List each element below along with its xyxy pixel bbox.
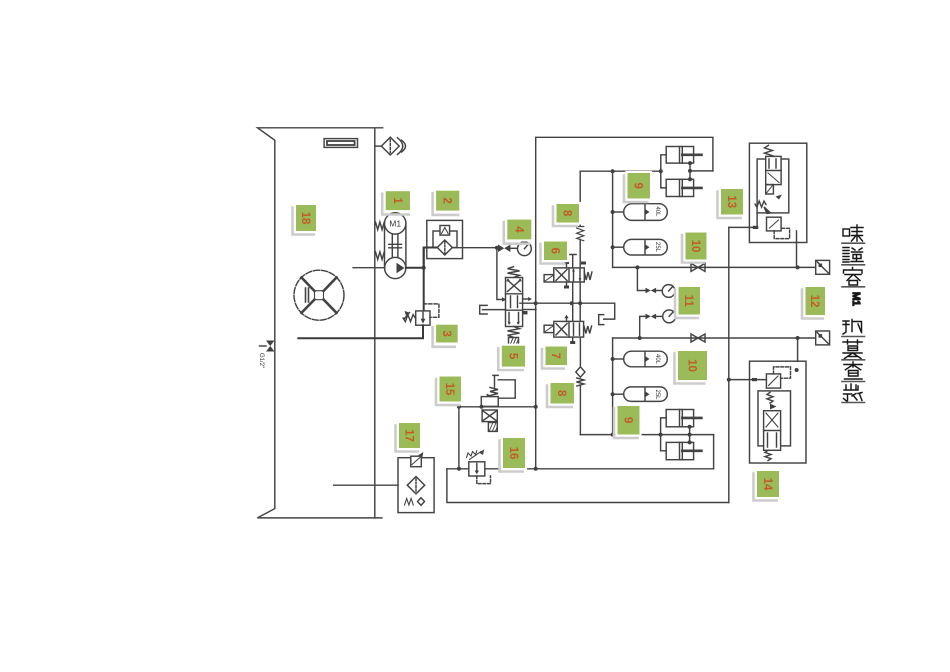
label 16 [500, 436, 528, 472]
svg-text:9: 9 [622, 417, 634, 423]
wire filter to gauge line [452, 247, 497, 249]
char 1 [843, 225, 863, 241]
tank 18 outline [257, 128, 382, 518]
wire accumulator top line [580, 170, 661, 172]
svg-text:40L: 40L [654, 207, 660, 218]
pilot valve block (item 14) [750, 361, 807, 463]
quick coupling 12 bottom [816, 331, 830, 345]
return filter (item 17) [334, 484, 398, 486]
label 13 [718, 187, 746, 218]
svg-text:1: 1 [391, 197, 403, 204]
motor M1 and pump unit (item 1) [385, 213, 406, 279]
label 1 [382, 189, 412, 215]
wire T line to frame [523, 309, 536, 311]
label 12 [802, 285, 827, 319]
relief pilot dashed [424, 304, 439, 317]
label 10 bottom [675, 349, 710, 384]
label 11 [675, 285, 702, 318]
label 3 [433, 323, 460, 347]
check valve + filter block (item 2) [427, 220, 463, 258]
wire valve15 line to frame [459, 406, 536, 408]
accumulator 40L bottom [613, 351, 668, 367]
accumulator line 2 [613, 337, 816, 339]
level gauge circle [294, 270, 344, 320]
CJK annotation column [842, 225, 865, 403]
svg-text:M1: M1 [389, 219, 401, 229]
wire feed to block14 left [729, 379, 767, 381]
wire block13 bottom to line1 [796, 243, 798, 268]
svg-text:M1: M1 [850, 292, 861, 306]
svg-text:10: 10 [689, 240, 701, 253]
svg-text:16: 16 [507, 447, 519, 460]
pressure gauge assembly (item 11 top) [637, 267, 645, 290]
wire valve6 to line P to valve7 [572, 282, 574, 321]
label 14 [754, 469, 782, 501]
ball valve on line 1 [691, 263, 705, 271]
relief spring [403, 315, 416, 322]
check valve with spring (item 8 top) [579, 239, 581, 268]
ball valve on line 2 [691, 334, 705, 342]
motor mount springs [376, 222, 385, 259]
svg-text:8: 8 [561, 210, 573, 217]
label 18 [293, 203, 319, 235]
main valve feed wire [497, 248, 503, 300]
relief drain to tank [298, 325, 423, 338]
air breather diamond on tank top right [375, 137, 406, 155]
svg-text:10: 10 [686, 359, 698, 372]
accumulator bus bottom [612, 338, 614, 435]
label 17 [396, 421, 423, 452]
wire valve7 to check valve 8 bottom [579, 337, 581, 367]
svg-text:11: 11 [682, 295, 694, 308]
svg-text:2: 2 [441, 197, 453, 203]
svg-text:14: 14 [761, 478, 773, 491]
svg-text:25L: 25L [654, 390, 660, 401]
svg-text:6: 6 [549, 247, 561, 253]
svg-text:G1/2": G1/2" [258, 353, 264, 368]
svg-text:9: 9 [632, 182, 644, 188]
label 4 [504, 218, 534, 244]
svg-text:5: 5 [506, 353, 518, 360]
label 9 bottom [614, 404, 642, 438]
svg-text:4: 4 [512, 226, 524, 233]
svg-text:12: 12 [808, 295, 820, 308]
label 15 [436, 374, 463, 405]
pump flow arrow [397, 263, 405, 273]
valve 5 left bracket port [480, 305, 487, 314]
blocked port bracket [599, 315, 604, 325]
label 8 bottom [547, 381, 576, 407]
return line bottom [447, 469, 729, 503]
svg-text:18: 18 [299, 212, 311, 225]
char 2 [843, 248, 863, 263]
valve 6 spring [584, 272, 592, 280]
quick coupling 12 top [816, 260, 830, 274]
valve 5 top spring [508, 267, 520, 278]
cartridge valve (item 15) [493, 375, 498, 387]
label 8 top [553, 202, 581, 226]
svg-text:17: 17 [403, 429, 415, 442]
label 6 [541, 239, 570, 263]
solenoid valve (item 6) [544, 268, 584, 282]
valve 5 right port arrow [523, 298, 529, 300]
accumulator bus top [612, 171, 614, 267]
pressure reducing valve (item 16) [467, 451, 491, 484]
cylinder group bottom (item 9) [661, 410, 702, 460]
wire accumulator bottom line [580, 434, 689, 436]
wire pump to filter [424, 248, 438, 268]
label 2 [433, 189, 462, 215]
pilot valve block (item 13) [749, 143, 806, 242]
wire line2 to block14 [797, 338, 799, 361]
svg-text:15: 15 [443, 383, 455, 396]
char 4 [843, 320, 862, 335]
svg-text:3: 3 [440, 330, 452, 336]
label 10 top [682, 230, 709, 262]
needle valve (item 4) [498, 245, 510, 253]
proportional directional valve (item 5) [506, 278, 523, 327]
valve 5 bottom spring [508, 327, 520, 338]
valve 5 solenoid hatched box [509, 338, 519, 346]
accumulator line 1 [613, 266, 816, 268]
char 3 [844, 268, 863, 286]
relief valve (item 3) [423, 248, 425, 311]
svg-text:7: 7 [549, 352, 561, 358]
pressure gauge assembly (item 11 bottom) [640, 316, 646, 338]
green number labels [293, 171, 828, 501]
accumulator 25L top [613, 239, 668, 255]
valve 7 spring [584, 326, 592, 334]
check valve with spring (item 8 bottom) [576, 367, 585, 377]
accumulator 25L bottom [613, 387, 668, 402]
char 5 [843, 340, 862, 359]
filler breather rectangle on tank top [324, 139, 357, 148]
char 7 [844, 384, 863, 401]
pump outlet line [406, 267, 424, 269]
solenoid valve (item 7) [544, 321, 584, 337]
pressure gauge (item 4) [518, 242, 532, 256]
valve 6 port wires [569, 255, 576, 268]
svg-text:25L: 25L [654, 242, 660, 253]
suction line [353, 267, 385, 269]
label 9 top [624, 171, 652, 202]
svg-text:40L: 40L [654, 354, 660, 365]
node pump outlet junction [422, 266, 426, 270]
cylinder group top (item 9) [661, 147, 702, 197]
wire block13 left drain down [729, 226, 750, 228]
main pressure line P [520, 303, 615, 319]
G1/2 port on tank left edge [260, 341, 275, 352]
accumulator 40L top [613, 204, 668, 221]
valve 7 port stubs [566, 317, 568, 321]
svg-text:13: 13 [725, 195, 737, 208]
char 6 [844, 362, 862, 379]
center frame [447, 137, 714, 469]
label 7 [542, 344, 569, 368]
svg-text:8: 8 [555, 390, 567, 397]
label 5 [498, 344, 527, 370]
